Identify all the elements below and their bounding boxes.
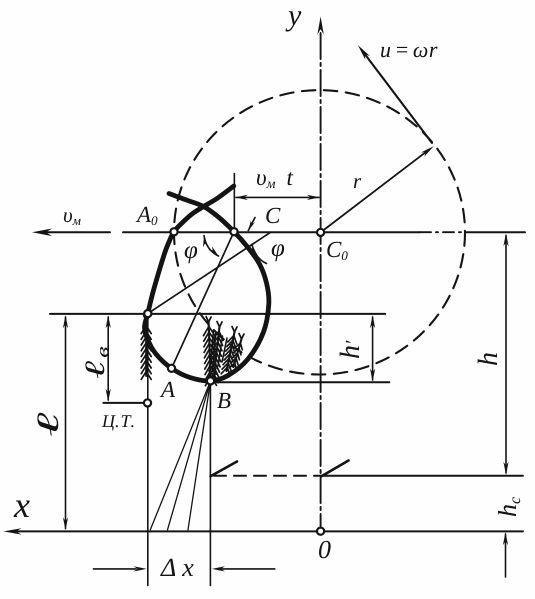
label r <box>354 178 361 188</box>
half-arrow barb at y axis <box>322 461 349 477</box>
label v_m t <box>257 172 293 188</box>
v_m t dimension line <box>236 196 319 198</box>
vertical through B down to ground <box>209 381 211 586</box>
horizontal line at centre-of-gravity level <box>103 402 147 404</box>
node O (origin) <box>317 528 324 535</box>
blade radius line A-C (L2) <box>172 232 235 369</box>
x axis <box>16 530 523 532</box>
blade-tip circle (dashed) around C0 <box>174 90 465 374</box>
label C0 <box>327 242 347 260</box>
x axis arrowhead <box>4 528 22 534</box>
label phi right <box>272 244 284 261</box>
y axis <box>320 33 322 530</box>
label C <box>266 208 280 223</box>
h dimension line <box>505 236 507 474</box>
machine velocity arrow v_m <box>46 231 110 233</box>
horizontal line at B level <box>211 381 390 383</box>
u = wr tangential velocity arrow <box>362 50 432 143</box>
vertical extension above point C <box>233 174 235 232</box>
half-arrow barb at B vertical <box>211 462 238 477</box>
node C0 <box>317 229 324 236</box>
horizontal line at reel-low level <box>50 313 385 315</box>
label v_m <box>64 212 81 225</box>
label l (rotated) <box>37 413 58 436</box>
l dimension line <box>65 317 67 529</box>
label h_c (rotated) <box>498 497 520 516</box>
fan of stalk lines from B <box>150 381 210 530</box>
label h (rotated) <box>478 353 497 365</box>
h' dimension line <box>372 317 374 380</box>
label delta x <box>160 559 194 576</box>
h_c lower outside arrow <box>505 534 507 577</box>
label h' (rotated) <box>340 340 359 358</box>
label u = wr <box>381 47 437 58</box>
radius line from left node towards centre line (L1) <box>148 232 271 313</box>
extra ear filler strokes <box>210 330 227 376</box>
label phi left <box>185 246 197 263</box>
label l_v (rotated) <box>85 347 108 378</box>
ear 2 <box>214 327 220 378</box>
l_v dimension line <box>107 317 109 400</box>
label A0 <box>136 207 158 225</box>
wheat ear cluster at B: ear 1 <box>209 322 211 381</box>
trochoid loop (thick blade-tip path) <box>144 186 268 381</box>
cut-height line (dashed then solid) <box>214 475 322 477</box>
label y <box>286 11 302 31</box>
label Ts.T. <box>102 415 134 431</box>
left loop node <box>144 310 151 317</box>
node A0 <box>170 228 177 235</box>
ear 4 (small) <box>234 339 242 367</box>
r arrowhead <box>421 146 434 157</box>
ear 3 <box>227 332 235 371</box>
phi leader arrow (right) <box>252 244 267 263</box>
node C <box>230 228 237 235</box>
node Ts.T. (centre of gravity) <box>144 399 151 406</box>
label A <box>160 382 175 397</box>
label O <box>319 541 331 559</box>
label x <box>14 501 30 518</box>
delta-x dimension arrows <box>93 568 136 570</box>
phi angle arc at C <box>204 236 219 257</box>
C label leader arrow <box>248 218 255 231</box>
vertical through left node down to ground <box>147 314 149 586</box>
left wheat ear <box>145 321 147 376</box>
label B <box>217 393 230 408</box>
node B <box>207 377 214 384</box>
node A <box>168 365 175 372</box>
y axis arrowhead <box>317 17 323 35</box>
center line through A0 C C0 <box>123 231 420 233</box>
radius r line <box>321 151 428 233</box>
